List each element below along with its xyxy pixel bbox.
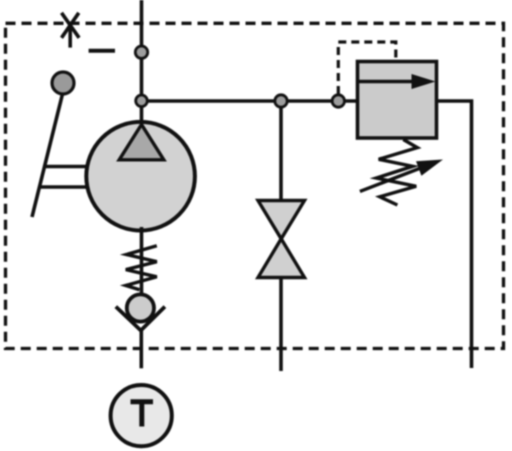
spring adjust arrow (360, 160, 443, 192)
wire: suction line top vertical (140, 0, 144, 122)
pump flow triangle (119, 125, 164, 160)
node junction pilot takeoff (332, 95, 344, 107)
lever linkage lower bar (40, 185, 89, 188)
check valve ball (127, 294, 154, 321)
enclosure dashed boundary (6, 23, 504, 348)
tank symbol T (111, 385, 172, 446)
relief valve V1 body (358, 62, 437, 139)
wire: main pressure line horizontal (142, 99, 359, 103)
spring above check valve (126, 246, 157, 290)
throttle valve body (258, 201, 305, 278)
tank letter T (131, 400, 154, 427)
node junction pump outlet (136, 95, 148, 107)
pilot dashed line (338, 42, 396, 94)
wire: throttle branch upper (279, 101, 283, 202)
lever linkage upper bar (45, 165, 89, 168)
wire: relief outlet to right drain (437, 101, 472, 368)
vent symbol X (plugged port) (62, 13, 80, 48)
wire: throttle branch lower drain (279, 277, 283, 371)
relief valve flow arrow (359, 74, 436, 89)
node on suction line (135, 46, 147, 58)
pump P1 body (86, 122, 195, 231)
control lever arm (32, 92, 63, 217)
short dash mark (89, 49, 115, 53)
wire: tank drain through boundary (140, 328, 144, 368)
check valve seat (116, 307, 165, 331)
pump drain vertical wire (140, 227, 144, 294)
lever knob (52, 72, 74, 94)
relief valve spring (376, 140, 417, 206)
node junction throttle branch (275, 95, 287, 107)
